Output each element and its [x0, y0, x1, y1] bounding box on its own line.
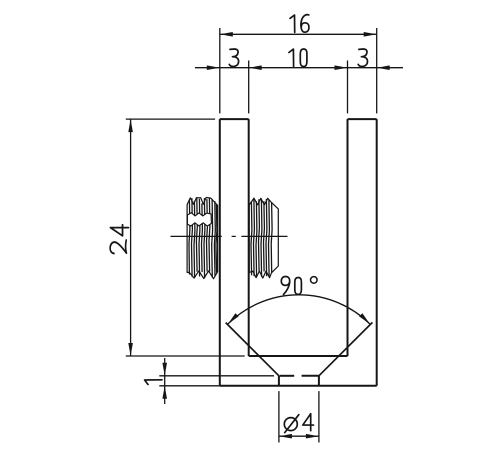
- dim 16: left extension line: [219, 28, 221, 113]
- dim 1: lower extension line: [159, 385, 220, 387]
- part outline: bottom edge: [220, 385, 377, 387]
- dim 10: left arrowhead: [249, 65, 262, 70]
- grub screw centerline: left long dash: [171, 235, 222, 237]
- dim 90deg: angular dimension arc: [228, 295, 370, 324]
- part outline: right wall top edge: [348, 118, 377, 120]
- dim 1: dimension line: [164, 358, 166, 404]
- dim 16: left arrowhead: [220, 32, 233, 37]
- dim 1: value label: [145, 380, 162, 385]
- hole: left wall of 4mm bore: [278, 376, 280, 386]
- dim 90deg: left arrowhead: [228, 313, 239, 324]
- part outline: left wall top edge: [220, 118, 249, 120]
- dim 24: top arrowhead: [128, 119, 133, 132]
- dim 16: value label digit 1: [290, 15, 295, 32]
- dim 1: lower arrowhead (points up): [162, 386, 167, 399]
- dim 1: upper arrowhead (points down): [162, 363, 167, 376]
- dim dia4: left extension line: [278, 391, 280, 442]
- dim 24: dimension line: [130, 119, 132, 356]
- part outline: right outer edge: [376, 119, 378, 386]
- dim 10: value label digit 1: [289, 49, 294, 66]
- dim dia4: right arrowhead: [306, 434, 319, 439]
- dim dia4: dimension line: [279, 435, 319, 437]
- hole: countersink bottom edge right segment: [302, 375, 319, 377]
- dim 16: value label digit 6: [301, 15, 309, 33]
- grub screw: left section thread flank strokes: [189, 198, 217, 278]
- grub screw: right section thread flank strokes: [251, 198, 272, 277]
- countersink cone left flank / 90-deg dim leg: [226, 323, 279, 376]
- dim 90deg: degree symbol: [311, 277, 318, 284]
- part outline: right wall inner edge (slot right): [347, 119, 349, 356]
- hole: countersink bottom edge left segment: [280, 375, 295, 377]
- dim 10: value label digit 0: [300, 49, 307, 67]
- dim 16: right arrowhead: [364, 32, 377, 37]
- countersink cone right flank / 90-deg dim leg: [319, 322, 373, 375]
- dim 90deg: value label digit 0: [295, 278, 302, 295]
- hole: right wall of 4mm bore: [318, 376, 320, 386]
- dim 3 right: outside arrowhead: [377, 65, 390, 70]
- dim 24: value label digit 2: [110, 240, 126, 253]
- part outline: left outer edge: [219, 119, 221, 386]
- dim dia4: diameter symbol slash: [285, 415, 299, 433]
- dim 3-10-3: dimension line: [195, 67, 403, 69]
- part outline: left wall inner edge (slot left): [248, 119, 250, 356]
- dim 16: right extension line: [376, 28, 378, 113]
- dim dia4: value label digit 4: [303, 414, 314, 431]
- grub screw: right threaded section outline: [249, 198, 278, 278]
- grub screw centerline: centre dot dash: [232, 235, 236, 237]
- dim 10: right arrowhead: [335, 65, 348, 70]
- dim dia4: right extension line: [318, 391, 320, 442]
- dim 1: upper extension line: [159, 375, 274, 377]
- dim 90deg: right arrowhead: [359, 313, 370, 324]
- dim 90deg: value label digit 9: [281, 277, 289, 295]
- dim 24: bottom extension line: [126, 355, 245, 357]
- dim 10: right extension line: [347, 61, 349, 114]
- dim 10: left extension line: [248, 61, 250, 114]
- dim dia4: left arrowhead: [279, 434, 292, 439]
- dim 16: dimension line: [220, 33, 377, 35]
- dim 24: bottom arrowhead: [128, 343, 133, 356]
- dim dia4: diameter symbol circle: [284, 418, 297, 431]
- dim 24: top extension line: [126, 118, 215, 120]
- dim 24: value label digit 4: [110, 225, 128, 236]
- dim 3 left: value label: [229, 49, 238, 67]
- grub screw: left threaded section outline: [187, 198, 218, 279]
- dim 3 right: value label: [358, 49, 367, 67]
- grub screw: screwdriver slot band: [187, 213, 211, 226]
- grub screw centerline: right long dash: [241, 235, 287, 237]
- part outline: slot bottom edge: [249, 355, 348, 357]
- dim 3 left: outside arrowhead: [207, 65, 220, 70]
